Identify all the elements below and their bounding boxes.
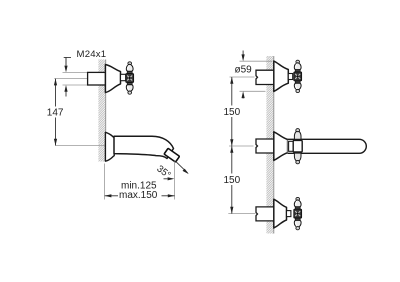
valve stem (left view) — [88, 72, 106, 85]
dim 147 line — [55, 79, 57, 146]
top valve bell (right view) — [274, 61, 289, 91]
dia59 top arrow — [242, 51, 244, 56]
bottom valve body (right view) — [256, 207, 274, 221]
35 deg flow line with arrow — [176, 161, 188, 173]
middle handle knob top — [293, 129, 302, 164]
middle spout body (right view) — [256, 139, 274, 153]
dia59 top ext line — [240, 60, 273, 62]
spout flange (left view) — [105, 132, 114, 161]
spout body (left view) — [114, 136, 174, 158]
valve bell escutcheon (left view) — [105, 65, 120, 93]
M24x1 ext line top — [63, 71, 88, 73]
dia59 bottom ext line — [240, 90, 266, 92]
dim 150 upper line — [231, 77, 233, 146]
label 150 upper — [222, 106, 242, 118]
35 deg leader arrow — [164, 178, 168, 180]
svg-text:ø59: ø59 — [235, 64, 253, 75]
svg-text:150: 150 — [224, 107, 241, 118]
cross handle (left view) — [126, 62, 134, 94]
svg-text:150: 150 — [224, 175, 241, 186]
middle collar — [289, 141, 294, 151]
middle bell (right view) — [274, 132, 288, 161]
top valve collar — [288, 74, 292, 80]
svg-text:M24x1: M24x1 — [77, 49, 107, 60]
min/max dimension line — [105, 195, 118, 197]
valve collar/stem to handle — [121, 74, 126, 80]
bottom valve bell (right view) — [274, 199, 287, 228]
M24x1 top arrow — [64, 66, 67, 73]
top valve centerline ext (right) — [230, 76, 255, 78]
valve centerline ext (left) — [54, 78, 87, 80]
M24x1 ext line bottom — [63, 84, 88, 86]
wall face line (left) — [105, 60, 107, 162]
svg-text:147: 147 — [47, 108, 64, 119]
wall section (left) — [98, 60, 105, 162]
cross handle (right top) — [294, 60, 302, 92]
wall section (right) — [266, 56, 274, 234]
top valve body (right view) — [256, 70, 274, 84]
wall face line (right) — [273, 56, 275, 234]
label 150 lower — [222, 174, 242, 186]
min/max left ext line — [104, 164, 106, 200]
svg-text:max.150: max.150 — [119, 190, 158, 201]
M24x1 leader — [64, 57, 71, 65]
spout centerline ext (left) — [55, 145, 105, 147]
dim 150 lower line — [231, 146, 233, 214]
middle handle knob bottom — [294, 153, 301, 161]
middle centerline ext (right) — [229, 145, 254, 147]
bottom centerline ext (right) — [228, 213, 255, 215]
M24x1 bottom arrow — [64, 85, 67, 92]
min/max right ext line (spout tip) — [174, 162, 176, 200]
dia59 bottom arrow — [242, 94, 244, 99]
spout tip nozzle — [164, 148, 179, 162]
bottom valve collar — [287, 211, 291, 217]
cross handle (right bottom) — [294, 197, 302, 229]
middle rosette (white, front) — [293, 140, 302, 152]
label 147 — [46, 107, 66, 118]
spout tube (right view) — [288, 139, 367, 153]
